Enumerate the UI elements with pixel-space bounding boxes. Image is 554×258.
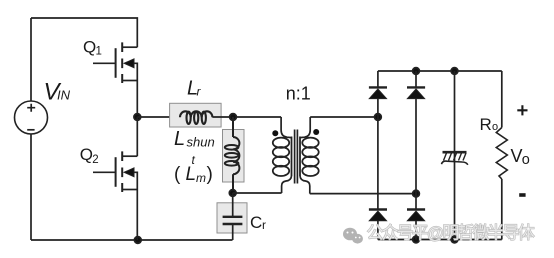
phase dot secondary bbox=[313, 129, 319, 135]
label minus output bbox=[519, 193, 525, 197]
node E secondary bottom junction bbox=[413, 190, 420, 197]
svg-text:C: C bbox=[250, 213, 262, 232]
core bbox=[294, 130, 296, 184]
label ( Lm t ) bbox=[174, 153, 213, 185]
label plus output bbox=[517, 105, 527, 115]
svg-text:L: L bbox=[186, 164, 197, 185]
voltage source V_IN bbox=[15, 101, 48, 134]
box around Lm shunt inductor bbox=[223, 130, 245, 183]
svg-text:2: 2 bbox=[92, 154, 98, 166]
wire D1 to D3 bbox=[377, 99, 379, 209]
wire left from V_IN minus to bottom bbox=[30, 134, 32, 240]
svg-text:L: L bbox=[174, 128, 185, 150]
box around Cr bbox=[217, 203, 247, 233]
wire bottom left rail bbox=[31, 239, 233, 241]
svg-text:Q: Q bbox=[80, 145, 93, 164]
svg-text:公众号平@明哲微半导体: 公众号平@明哲微半导体 bbox=[367, 224, 535, 243]
wire Q2 source down to bottom rail bbox=[136, 190, 138, 241]
resistor-box around Lr bbox=[170, 103, 222, 127]
node H bbox=[413, 236, 420, 243]
svg-text:n:1: n:1 bbox=[286, 83, 311, 103]
diode D4 bbox=[407, 210, 425, 221]
svg-text:R: R bbox=[480, 115, 492, 134]
wire Q2 drain up to midpoint node bbox=[136, 117, 138, 156]
transistor Q2 bbox=[93, 151, 137, 192]
label Q2 bbox=[80, 145, 99, 166]
inductor Lm vertical bbox=[225, 117, 240, 193]
wire secondary top to D1-D3 midpoint bbox=[310, 116, 378, 118]
svg-text:o: o bbox=[522, 152, 530, 168]
diode D3 bbox=[369, 210, 387, 221]
svg-text:m: m bbox=[196, 171, 206, 185]
wire Q1 source down to midpoint node bbox=[136, 81, 138, 118]
label VO bbox=[511, 146, 530, 168]
svg-text:IN: IN bbox=[57, 88, 71, 103]
svg-text:(: ( bbox=[174, 164, 181, 185]
node F bbox=[413, 68, 420, 75]
node at Q2 source / bottom rail bbox=[134, 237, 141, 244]
wire midpoint node to Lr bbox=[137, 116, 180, 118]
wire left from top to V_IN plus terminal bbox=[30, 18, 32, 101]
secondary winding bbox=[302, 138, 318, 148]
inductor Lr bbox=[180, 111, 212, 124]
label VIN bbox=[44, 79, 71, 106]
svg-text:shun: shun bbox=[187, 135, 215, 150]
wire D2 leg bbox=[415, 71, 417, 87]
node A half-bridge midpoint bbox=[134, 114, 141, 121]
svg-text:V: V bbox=[511, 146, 523, 166]
svg-text:r: r bbox=[262, 218, 266, 232]
svg-text:Q: Q bbox=[83, 37, 96, 56]
capacitor Co hatched symbol bbox=[442, 152, 468, 165]
primary top lead bbox=[281, 117, 291, 138]
svg-text:): ) bbox=[207, 164, 213, 185]
watermark icon bbox=[343, 228, 363, 244]
label Ro bbox=[480, 115, 499, 134]
resistor Ro bbox=[496, 128, 507, 180]
wire top output rail bbox=[378, 70, 502, 72]
wire D4 to bottom rail bbox=[415, 221, 417, 240]
primary winding bbox=[273, 138, 289, 148]
wire Lr to node B bbox=[212, 116, 281, 118]
capacitor Cr bbox=[223, 193, 243, 240]
wire bottom output rail bbox=[378, 239, 502, 241]
svg-text:1: 1 bbox=[96, 46, 102, 58]
diode D2 bbox=[407, 87, 425, 98]
wire D1 leg bbox=[377, 71, 379, 87]
wire top rail from source to Q1 drain bbox=[31, 18, 137, 47]
node C between Lm and Cr bbox=[229, 190, 236, 197]
wire node C to primary bottom lead bbox=[233, 192, 282, 194]
wire output capacitor leg bbox=[454, 71, 456, 240]
svg-text:o: o bbox=[492, 121, 498, 133]
label Cr bbox=[250, 213, 266, 232]
wire secondary bottom to D2-D4 midpoint bbox=[310, 193, 416, 195]
wire D3 to bottom rail bbox=[377, 221, 379, 240]
phase dot primary bbox=[272, 130, 278, 136]
label Q1 bbox=[83, 37, 102, 57]
diode D1 bbox=[369, 87, 387, 98]
node I bbox=[451, 236, 458, 243]
node D secondary top junction bbox=[375, 114, 382, 121]
node G bbox=[451, 68, 458, 75]
secondary top lead bbox=[300, 117, 310, 138]
wire output right leg bottom bbox=[501, 179, 503, 240]
wire output right leg top bbox=[501, 71, 503, 128]
transistor Q1 bbox=[93, 42, 137, 83]
transformer T1 bbox=[272, 117, 319, 194]
primary bottom lead bbox=[282, 176, 292, 193]
node B resonant node bbox=[230, 114, 237, 121]
secondary bottom lead bbox=[300, 176, 310, 194]
label Lshun bbox=[174, 128, 215, 150]
label Lr bbox=[187, 78, 202, 100]
wire D2 to D4 bbox=[415, 99, 417, 209]
svg-text:r: r bbox=[197, 85, 202, 99]
